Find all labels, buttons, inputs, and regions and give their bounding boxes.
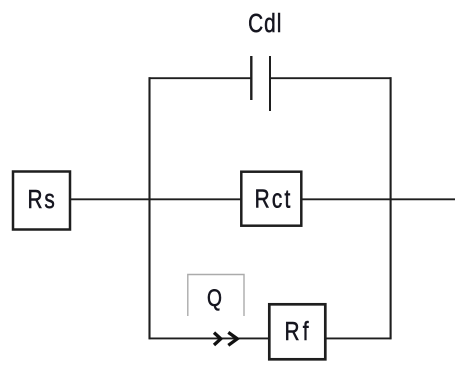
wire middle-right segment (Rct to right terminal)	[301, 198, 455, 200]
wire top-left segment (left vertical top corner to Cdl plate 1)	[149, 77, 252, 79]
svg-text:Rct: Rct	[255, 184, 291, 213]
svg-text:Rs: Rs	[28, 185, 55, 214]
svg-text:Q: Q	[207, 284, 222, 312]
CPE element Q (open-bottom box)	[188, 275, 244, 317]
wire bottom-left segment (left vertical to Rf)	[149, 337, 269, 339]
capacitor Cdl plate 1	[250, 56, 252, 100]
arrow chevron 2	[228, 332, 237, 345]
resistor Rf	[269, 304, 325, 359]
resistor Rct	[241, 172, 301, 226]
wire bottom-right segment (Rf to right vertical)	[325, 337, 391, 339]
resistor Rs	[13, 172, 70, 230]
arrow chevron 1	[214, 333, 221, 345]
label Cdl	[248, 9, 281, 38]
wire left vertical branch	[148, 77, 150, 339]
svg-text:Cdl: Cdl	[248, 9, 281, 38]
capacitor Cdl plate 2	[269, 56, 271, 111]
wire top-right segment (Cdl plate 2 to right vertical top corner)	[270, 77, 392, 79]
wire right vertical branch	[390, 77, 392, 339]
wire middle segment (Rs to Rct)	[70, 198, 241, 200]
svg-text:Rf: Rf	[285, 317, 309, 346]
